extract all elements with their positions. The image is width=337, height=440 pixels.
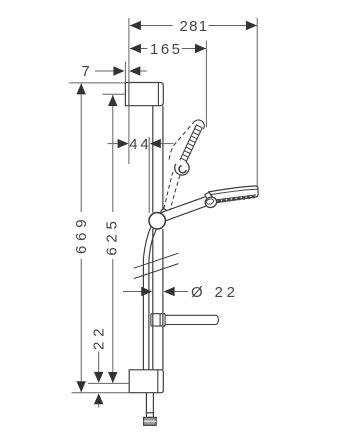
svg-text:625: 625 — [104, 221, 121, 256]
svg-text:165: 165 — [150, 41, 180, 58]
svg-text:669: 669 — [73, 219, 90, 254]
svg-text:281: 281 — [180, 18, 208, 35]
svg-text:7: 7 — [81, 63, 89, 80]
